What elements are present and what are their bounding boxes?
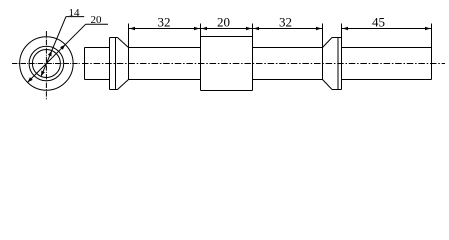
stub end face [84, 48, 86, 80]
shaft1 top edge [129, 47, 201, 49]
flange1 top edge [110, 37, 118, 39]
flange1 bottom edge [110, 89, 118, 91]
cone1 top slant [118, 38, 129, 48]
arrow upper of dia14 [48, 51, 52, 57]
shaft2 top edge [253, 47, 323, 49]
arrow right of dim 20 [246, 27, 252, 31]
arrow left of dim 32a [130, 27, 136, 31]
block top edge [201, 36, 253, 38]
end view vertical centerline [45, 31, 47, 100]
flange2 top edge [332, 37, 342, 39]
arrow upper of dia20 [60, 45, 65, 50]
section line / ext line x=128.5 [128, 24, 130, 80]
svg-text:20: 20 [91, 14, 103, 26]
block right edge + ext [252, 24, 254, 91]
dim line dia14 (diagonal through center) [41, 17, 66, 77]
dim line 20 [201, 28, 253, 30]
shelf for label 14 [66, 16, 84, 18]
shelf for label 20 [86, 23, 108, 25]
svg-text:32: 32 [158, 14, 171, 29]
flange2 right face + ext [341, 24, 343, 90]
cone2 bottom slant [323, 80, 333, 90]
section line / ext line x=322.5 [322, 24, 324, 80]
dim line 45 [342, 28, 432, 30]
shaft3 top edge [342, 47, 432, 49]
stub top edge [85, 47, 110, 49]
shaft1 bottom edge [129, 79, 201, 81]
cone1 bottom slant [118, 80, 129, 90]
dim line dia20 (diagonal through center) [28, 24, 86, 82]
arrow lower of dia20 [28, 77, 33, 82]
flange2 inner edge [337, 38, 339, 90]
block bottom edge [201, 90, 253, 92]
arrow lower of dia14 [41, 71, 45, 77]
arrow right of dim 32a [194, 27, 200, 31]
side view centerline [82, 63, 445, 65]
svg-text:14: 14 [69, 7, 81, 19]
end view horizontal centerline [12, 63, 80, 65]
flange1 left face [109, 38, 111, 90]
svg-text:32: 32 [279, 14, 292, 29]
cone2 top slant [323, 38, 333, 48]
shaft2 bottom edge [253, 79, 323, 81]
arrow left of dim 32b [254, 27, 260, 31]
svg-text:20: 20 [217, 14, 230, 29]
flange2 bottom edge [332, 89, 342, 91]
flange1 inner edge [115, 38, 117, 90]
dim line 32 (second) [253, 28, 323, 30]
outer circle (block silhouette) [20, 37, 74, 91]
dim line 32 (first) [129, 28, 201, 30]
arrow right of dim 32b [316, 27, 322, 31]
arrow right of dim 45 [425, 27, 431, 31]
svg-text:45: 45 [372, 14, 385, 29]
circle dia 14 [32, 50, 60, 78]
shaft3 bottom edge [342, 79, 432, 81]
shaft end face + ext [431, 24, 433, 80]
block left edge + ext [200, 24, 202, 91]
stub bottom edge [85, 79, 110, 81]
circle dia 20 [29, 46, 64, 81]
arrow left of dim 45 [343, 27, 349, 31]
arrow left of dim 20 [202, 27, 208, 31]
